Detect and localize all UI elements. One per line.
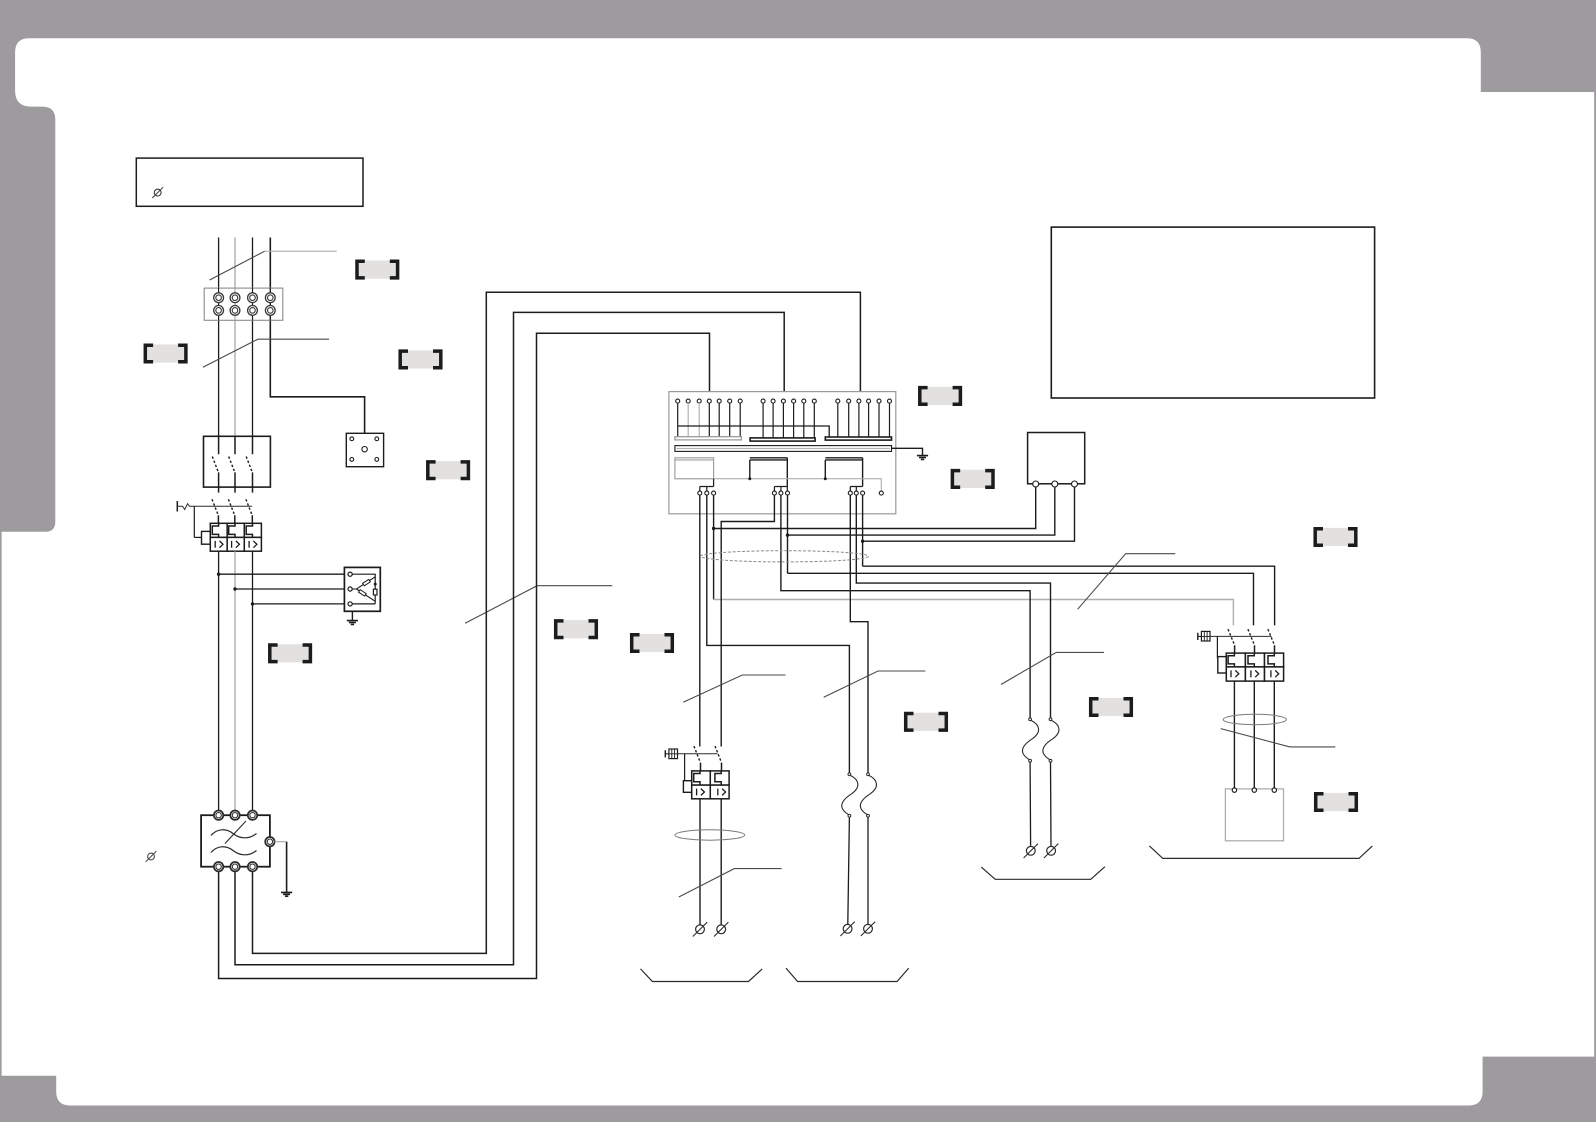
breaker Q4 overcurrent symbols [1231,670,1279,677]
bus bar 3 [825,437,891,440]
wire-end terminal heater a [840,922,854,936]
board g3 terminal wires [838,403,890,437]
board input terminals group3 [836,399,892,403]
board cross wire [678,426,830,437]
group brace 4 [1149,846,1372,859]
wire to monitor in3 [253,603,345,605]
leader to mains cable [210,251,337,280]
junction node L2/monitor [233,587,236,590]
wire board g1c1 to breaker Q3 pole1 [699,495,701,746]
wire board g2c1 to breaker Q3 pole2 [721,495,774,746]
wire to monitor in1 [219,573,345,575]
junction g3c3/contactor [861,540,864,543]
breaker Q2 overcurrent symbols [215,541,257,548]
cable marker E3 [1223,714,1286,724]
phase monitor relay K0 [344,567,380,611]
junction g2c3/contactor [786,533,789,536]
wire contactor A [714,487,1036,529]
label heater group [906,713,947,731]
label board right [920,387,961,405]
label right of block [400,350,441,368]
board relay K1 [675,458,714,479]
wire heater right tail [867,817,869,924]
leader to loop cable [465,586,612,624]
wire board g2c3 down [787,495,789,573]
breaker Q3 thermal hooks [694,771,722,785]
wire Q4 pole3 to motor [1273,681,1275,788]
wire L3 to filter [252,551,254,815]
leader below block [203,339,329,367]
leader below Q3 [679,869,782,897]
controller board A1 outline [669,392,896,514]
board relay K3 [825,458,862,487]
connector X1 [346,433,383,466]
leader to fuse pair [1001,652,1104,684]
board common rail [675,479,881,491]
fuse element right [1043,718,1059,762]
monitor ground [347,611,358,624]
junction node L3/monitor [251,602,254,605]
wire-end terminal Q3 b [714,922,728,936]
wire loop phase A (filter to board g3) [253,292,861,953]
label contactor [952,470,993,488]
bus bar 2 [750,438,815,441]
wire g3c3 to breaker Q4 pole3 [863,566,1275,625]
note rectangle [1051,227,1374,398]
main switch Q1 [204,436,271,492]
wire-end terminal heater b [861,922,875,936]
label fuse group [1091,698,1132,716]
motor load box [1225,788,1283,841]
wire Q3 pole2 to terminal [720,799,722,925]
breaker Q3 contact blades [701,763,722,771]
wire phase L1 incoming [218,238,220,437]
wire board g1c2 to heater left [707,495,850,773]
board input terminals group2 [761,399,816,403]
strip earth wire [892,448,929,459]
breaker Q4 actuator [1198,631,1210,641]
leader to motor cable [1221,729,1336,747]
diameter mark near filter [146,851,157,862]
heater element left [842,773,858,817]
breaker Q2 thermal hooks [212,523,252,537]
label left of Q3 [632,634,673,652]
wire loop phase C (filter to board g1) [219,333,710,978]
junction K3/rail [824,477,827,480]
K2 output fan [774,487,787,492]
terminal block X0 [204,288,283,320]
wire L1 to filter [218,551,220,815]
wire (light) g1c3 to breaker Q4 pole1 [714,600,1234,626]
leader to harness [1078,554,1176,610]
wire fuse left tail [1029,762,1032,846]
group brace 2 [786,968,909,981]
breaker Q3 overcurrent symbols [697,789,726,796]
junction node L1/monitor [217,573,220,576]
wire N to connector [270,238,364,434]
label motor [1316,793,1357,811]
breaker Q4 contact blades [1235,645,1275,653]
board input terminals group1 [676,399,743,403]
line filter Z1 [201,811,274,872]
wire board g3c1 to heater right [850,495,868,773]
wire to monitor in2 [235,588,344,590]
fuse element left [1022,718,1038,762]
wire heater left tail [848,817,850,924]
label below breaker [270,644,311,662]
breaker Q3 linkage [678,754,718,793]
wire-end terminal fuse a [1024,844,1038,858]
cable marker E1 [701,551,869,562]
board g2 terminal wires [763,403,814,438]
wire board g3c2 to fuse right [856,495,1050,718]
connector strip [675,446,892,452]
wire phase L3 incoming [252,238,254,437]
bus bar 1 [675,437,742,440]
heater element right [860,773,876,817]
board output terminals [698,491,884,495]
wire g2c3 to breaker Q4 pole2 [788,573,1254,625]
note box with diameter mark [136,158,363,206]
wire Q4 pole2 to motor [1253,681,1255,788]
leader above Q3 [683,675,785,702]
breaker Q4 linkage [1210,636,1272,673]
wire board g1c3 down [713,495,715,599]
label left of block [145,344,186,362]
wire L2 to filter [234,551,236,815]
group brace 1 [641,969,763,982]
K3 output fan [850,487,862,492]
wire contactor B [788,487,1055,535]
wire Q4 pole1 to motor [1233,681,1235,788]
wire-end terminal fuse b [1044,844,1058,858]
contactor K4 [1028,433,1085,488]
wire board g3c3 down [862,495,864,566]
cable marker E2 [675,830,745,840]
board relay K2 [750,458,788,487]
leader to heater pair [824,671,926,697]
breaker Q2 contact blades [218,515,252,523]
board g1 terminal wires [678,403,741,437]
junction K2/rail [748,477,751,480]
breaker Q4 thermal hooks [1228,653,1274,667]
K1 output fan [700,479,714,491]
label mains [357,261,398,279]
wire fuse right tail [1050,762,1053,846]
breaker Q3 actuator [665,749,677,759]
wire contactor C [863,487,1075,541]
breaker Q4 module boxes [1226,653,1283,681]
junction g1c3/contactor [712,527,715,530]
wire loop phase B (filter to board g2) [235,312,784,964]
group brace 3 [981,867,1105,880]
wire board g2c2 to fuse left [781,495,1030,718]
filter earth wire [275,842,293,897]
wire Q3 pole1 to terminal [699,799,701,925]
label right edge mid [1315,528,1356,546]
breaker Q2 trip linkage [177,501,252,544]
label right of main switch [428,461,469,479]
breaker Q2 module boxes [210,523,261,551]
label loop cable [556,620,597,638]
wire phase L2 incoming (light print) [234,238,236,437]
wire-end terminal Q3 a [693,922,707,936]
breaker Q3 module boxes [692,771,729,799]
